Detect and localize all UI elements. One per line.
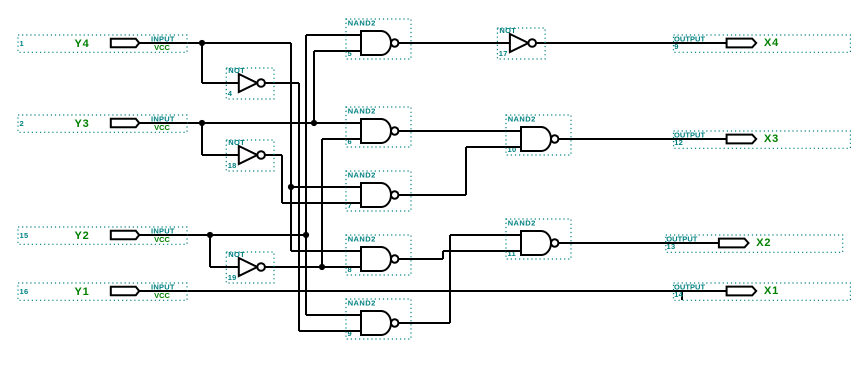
- input pin Y4 (Y4): [18, 34, 187, 52]
- svg-text:X1: X1: [764, 285, 779, 297]
- input pin Y3 (Y3): [18, 114, 187, 132]
- wire NAND5 input B: [314, 50, 362, 52]
- wire NOT17 output: [536, 42, 727, 44]
- output pin X3 (X3): [674, 131, 851, 149]
- svg-text:NOT: NOT: [228, 66, 245, 75]
- wire v1 Y4 vertical: [290, 43, 292, 251]
- svg-text:VCC: VCC: [154, 123, 170, 132]
- svg-text:13: 13: [667, 242, 676, 251]
- svg-text:17: 17: [499, 49, 508, 58]
- svg-text:VCC: VCC: [154, 235, 170, 244]
- wire stub below X1 wire: [681, 291, 683, 300]
- wire NAND10 input B: [466, 146, 522, 148]
- svg-text:OUTPUT: OUTPUT: [674, 35, 705, 44]
- wire v2 Y4-not vertical: [298, 83, 300, 331]
- svg-text:Y2: Y2: [75, 230, 90, 242]
- svg-text:VCC: VCC: [154, 43, 170, 52]
- wire Y1 row to X1: [138, 290, 727, 292]
- svg-text:NAND2: NAND2: [508, 218, 536, 227]
- wire NOT4 output: [265, 82, 299, 84]
- node v1-NAND7A junction: [288, 184, 294, 190]
- svg-text:15: 15: [20, 231, 29, 240]
- wire Y3 row: [138, 122, 362, 124]
- svg-text:X2: X2: [756, 237, 771, 249]
- wire NAND5 output: [398, 42, 510, 44]
- wire Y2 row: [138, 234, 306, 236]
- NAND2 gate U10: [506, 114, 571, 155]
- svg-text:Y3: Y3: [75, 118, 90, 130]
- wire NOT18 out drop: [281, 155, 283, 203]
- node Y2-v3 junction: [303, 232, 309, 238]
- svg-text:NOT: NOT: [228, 138, 245, 147]
- NAND2 gate U11: [506, 218, 571, 259]
- svg-text:NAND2: NAND2: [508, 114, 536, 123]
- input pin Y1 (Y1): [18, 282, 187, 300]
- node Y2-NOT19 junction: [207, 232, 213, 238]
- wire NOT19 output / NAND8 input B: [265, 266, 362, 268]
- wire NAND9 input B: [299, 330, 362, 332]
- wire NAND8 input A: [291, 250, 362, 252]
- wire NAND6 output: [398, 130, 522, 132]
- svg-text:12: 12: [674, 138, 683, 147]
- wire NAND7 output: [398, 194, 466, 196]
- svg-text:4: 4: [228, 89, 233, 98]
- wire NOT18 output: [265, 154, 282, 156]
- svg-text:VCC: VCC: [154, 291, 170, 300]
- node Y4-NOT4 junction: [199, 40, 205, 46]
- wire Y2 to NOT19 drop: [209, 235, 211, 267]
- wire NOT18 input: [202, 154, 240, 156]
- NAND2 gate U9: [346, 298, 411, 339]
- svg-text:NOT: NOT: [228, 250, 245, 259]
- wire NAND7 to NAND10 riser: [465, 147, 467, 195]
- wire NAND9 output: [398, 322, 450, 324]
- NAND2 gate U8: [346, 234, 411, 275]
- NAND2 gate U5: [346, 18, 411, 59]
- input pin Y2 (Y2): [18, 226, 187, 244]
- wire NAND6 input B: [322, 138, 362, 140]
- wire v3 Y2 vertical: [305, 35, 307, 315]
- svg-text:NOT: NOT: [499, 26, 516, 35]
- svg-text:NAND2: NAND2: [348, 170, 376, 179]
- wire NAND10 output to X3: [558, 138, 727, 140]
- svg-text:NAND2: NAND2: [348, 18, 376, 27]
- wire NAND5 input A: [306, 34, 362, 36]
- node Y3-NOT18 junction: [199, 120, 205, 126]
- output pin X4 (X4): [674, 35, 851, 53]
- wire NAND9 input A: [306, 314, 362, 316]
- wire v5 Y2-not vertical: [321, 139, 323, 267]
- output pin X1 (X1): [674, 283, 851, 301]
- node v5-NOT19out junction: [319, 264, 325, 270]
- svg-text:9: 9: [674, 42, 678, 51]
- svg-text:NAND2: NAND2: [348, 298, 376, 307]
- svg-text:16: 16: [20, 287, 29, 296]
- svg-text:Y1: Y1: [75, 286, 90, 298]
- wire NAND9 to NAND11 riser: [449, 235, 451, 323]
- svg-text:18: 18: [228, 161, 237, 170]
- wire NAND7 input B: [282, 202, 362, 204]
- wire NAND11 input A: [450, 234, 522, 236]
- wire Y4 to NOT4 drop: [201, 43, 203, 83]
- wire NAND11 output to X2: [558, 242, 719, 244]
- wire NAND8 to NAND11 riser: [442, 251, 444, 259]
- wire NOT19 input: [210, 266, 240, 268]
- wire Y3 to NOT18 drop: [201, 123, 203, 155]
- NOT gate U17: [497, 26, 545, 59]
- wire v4 Y3 vertical: [313, 51, 315, 123]
- NAND2 gate U6: [346, 106, 411, 147]
- svg-text:1: 1: [20, 39, 24, 48]
- wire NAND11 input B: [443, 250, 522, 252]
- NAND2 gate U7: [346, 170, 411, 211]
- svg-text:NAND2: NAND2: [348, 106, 376, 115]
- wire NAND8 output: [398, 258, 443, 260]
- svg-text:14: 14: [674, 290, 683, 299]
- wire NOT4 input: [202, 82, 240, 84]
- svg-text:NAND2: NAND2: [348, 234, 376, 243]
- svg-text:19: 19: [228, 273, 237, 282]
- svg-text:X3: X3: [764, 133, 779, 145]
- wire Y4 row: [138, 42, 291, 44]
- svg-text:Y4: Y4: [75, 38, 90, 50]
- svg-text:2: 2: [20, 119, 24, 128]
- NOT gate U4: [226, 66, 274, 99]
- svg-text:X4: X4: [764, 37, 779, 49]
- NOT gate U18: [226, 138, 274, 171]
- wire NAND7 input A: [291, 186, 362, 188]
- NOT gate U19: [226, 250, 274, 283]
- node Y3-v4 junction: [311, 120, 317, 126]
- output pin X2 (X2): [666, 235, 843, 253]
